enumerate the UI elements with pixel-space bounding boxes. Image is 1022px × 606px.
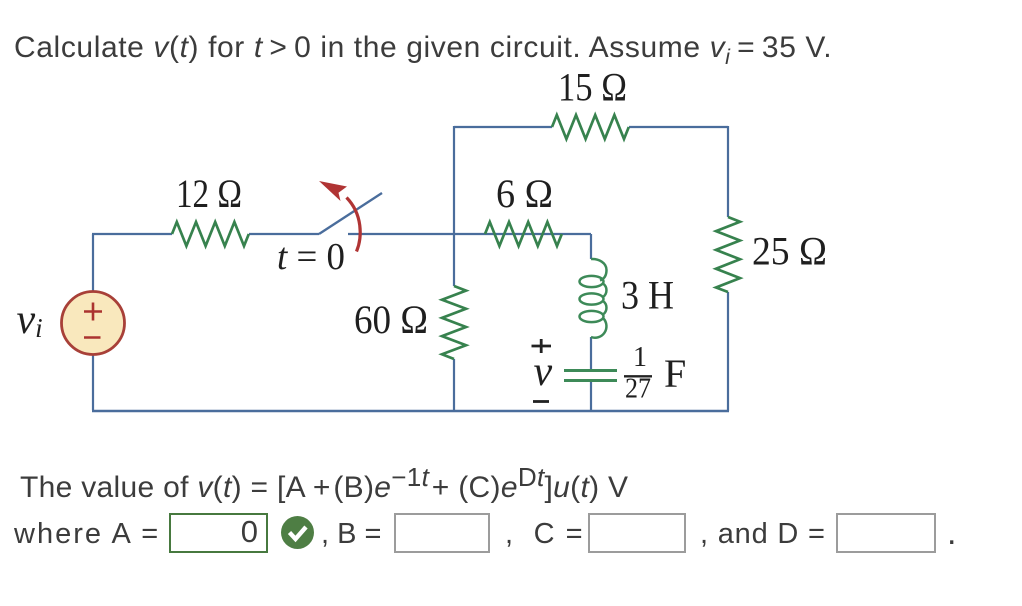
- svg-text:15 Ω: 15 Ω: [558, 65, 627, 110]
- svg-text:3 H: 3 H: [621, 273, 674, 318]
- svg-text:vi: vi: [17, 297, 43, 343]
- svg-text:F: F: [664, 351, 686, 396]
- svg-text:1: 1: [633, 342, 647, 373]
- svg-text:27: 27: [625, 374, 651, 405]
- svg-text:6 Ω: 6 Ω: [496, 171, 553, 216]
- svg-text:25 Ω: 25 Ω: [752, 229, 827, 274]
- svg-text:12 Ω: 12 Ω: [176, 171, 242, 216]
- svg-text:60 Ω: 60 Ω: [354, 297, 428, 342]
- svg-text:v: v: [534, 349, 553, 395]
- svg-text:t = 0: t = 0: [277, 236, 345, 278]
